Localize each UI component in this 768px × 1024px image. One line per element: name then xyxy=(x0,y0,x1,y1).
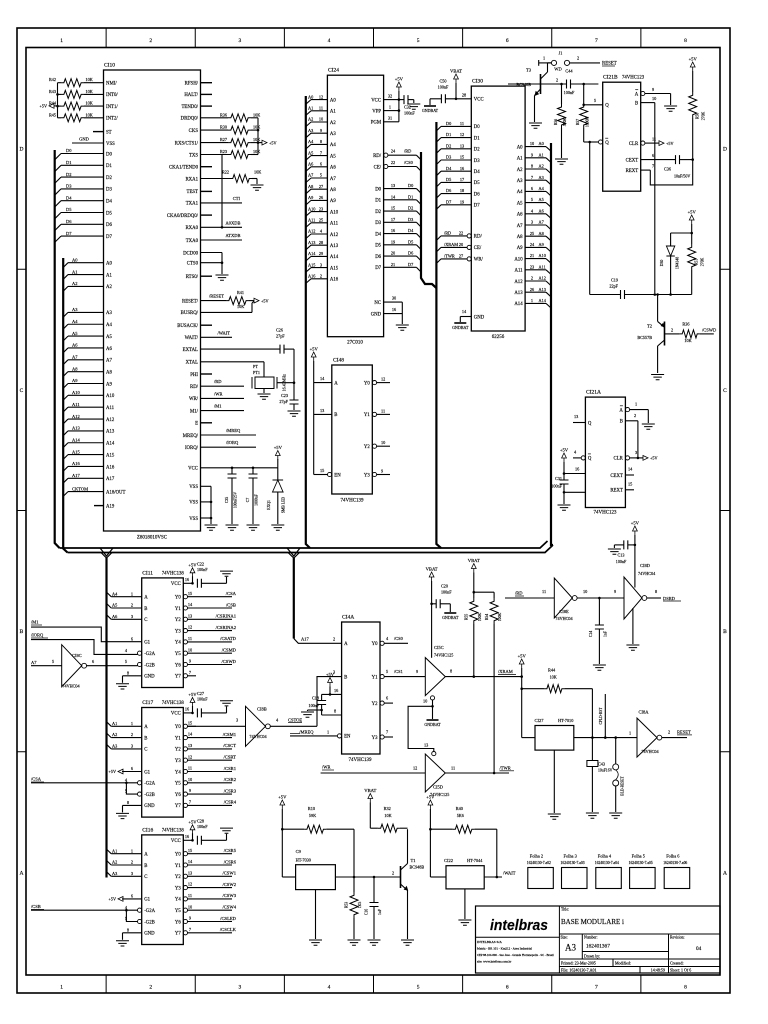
IC CI21B 74VHC123 body xyxy=(603,82,641,191)
svg-text:1: 1 xyxy=(327,729,329,734)
svg-text:HT-7010: HT-7010 xyxy=(558,718,573,723)
svg-text:D2: D2 xyxy=(408,206,413,211)
svg-text:4: 4 xyxy=(328,985,331,991)
net /WR from CPU xyxy=(201,397,245,399)
svg-text:/CSW2: /CSW2 xyxy=(222,882,236,887)
svg-text:A: A xyxy=(20,870,24,876)
IC CI11 74VHC138 body xyxy=(142,578,184,688)
svg-text:16240130-7.a06: 16240130-7.a06 xyxy=(663,861,687,865)
svg-text:R50: R50 xyxy=(696,113,700,119)
svg-text:D7: D7 xyxy=(446,199,452,204)
svg-text:A17: A17 xyxy=(72,473,80,478)
resistor R55 100K xyxy=(470,598,478,624)
svg-text:28: 28 xyxy=(462,92,466,97)
CI4A VCC pin 16 xyxy=(328,678,333,687)
svg-text:VBAT: VBAT xyxy=(468,558,480,563)
svg-text:Y7: Y7 xyxy=(175,675,181,680)
svg-text:CI8C: CI8C xyxy=(72,653,82,658)
svg-text:Size:: Size: xyxy=(561,936,568,940)
C9 output wire xyxy=(335,876,400,878)
svg-text:Y5: Y5 xyxy=(175,652,181,657)
svg-text:Y2: Y2 xyxy=(372,702,378,707)
svg-text:Y1: Y1 xyxy=(175,736,181,741)
svg-text:A3: A3 xyxy=(308,128,313,133)
svg-text:A13: A13 xyxy=(72,426,80,431)
svg-text:A13: A13 xyxy=(106,430,115,435)
svg-text:Q: Q xyxy=(588,421,592,426)
EPROM PGM pin 31 xyxy=(384,121,399,123)
svg-text:11: 11 xyxy=(381,408,385,413)
svg-text:R22: R22 xyxy=(222,170,229,175)
svg-text:B: B xyxy=(144,607,147,612)
svg-text:C36: C36 xyxy=(664,167,672,172)
resistor R50 270K xyxy=(690,62,695,71)
CI22 output net /WAIT xyxy=(484,876,502,878)
svg-text:Folha 6: Folha 6 xyxy=(666,854,680,859)
cap C31 100nF xyxy=(563,474,565,481)
+5V above D30 R51 xyxy=(689,215,694,224)
svg-text:11: 11 xyxy=(319,106,323,111)
svg-text:A11: A11 xyxy=(72,402,80,407)
svg-text:A8: A8 xyxy=(308,184,313,189)
svg-text:12: 12 xyxy=(188,882,192,887)
svg-text:D7: D7 xyxy=(66,231,72,236)
svg-text:A3: A3 xyxy=(517,179,523,184)
svg-text:CKTOM: CKTOM xyxy=(72,486,88,491)
svg-text:R57: R57 xyxy=(576,119,580,125)
inverter CI8C 74VHC04 xyxy=(62,645,82,687)
svg-text:C: C xyxy=(20,388,24,394)
svg-text:CKA1/TEND0: CKA1/TEND0 xyxy=(169,166,199,171)
svg-text:22pF: 22pF xyxy=(609,284,618,289)
net /RD from CPU xyxy=(201,385,245,387)
svg-text:+5V: +5V xyxy=(310,347,319,352)
C9 ground leg xyxy=(315,890,317,939)
svg-text:C32: C32 xyxy=(404,105,411,110)
CI11 enables G2A G2B net None xyxy=(138,651,142,655)
svg-text:EXQ1: EXQ1 xyxy=(267,500,271,510)
svg-text:A11: A11 xyxy=(539,264,546,269)
svg-text:/CSWD: /CSWD xyxy=(702,327,717,332)
svg-text:GND: GND xyxy=(144,932,155,937)
svg-text:3: 3 xyxy=(320,262,322,267)
svg-text:1: 1 xyxy=(629,731,631,736)
CI16 enable G1 xyxy=(122,898,142,900)
svg-text:A7: A7 xyxy=(72,355,78,360)
svg-text:2: 2 xyxy=(320,274,322,279)
svg-text:+5V: +5V xyxy=(518,654,527,659)
svg-text:Y5: Y5 xyxy=(175,909,181,914)
svg-text:10K: 10K xyxy=(253,125,260,130)
svg-text:10K: 10K xyxy=(86,77,93,82)
svg-text:Y1: Y1 xyxy=(364,413,370,418)
svg-text:R43: R43 xyxy=(49,89,56,94)
main horizontal bus lower edge xyxy=(68,545,554,553)
svg-text:Q: Q xyxy=(588,457,592,462)
resistor R44 10K xyxy=(522,688,545,690)
svg-text:4: 4 xyxy=(328,38,331,44)
svg-text:A2: A2 xyxy=(72,281,78,286)
svg-text:CKS: CKS xyxy=(189,129,199,134)
inverter CI8E 74VHC04 xyxy=(554,578,572,618)
svg-text:CI21B: CI21B xyxy=(603,75,618,81)
svg-text:B: B xyxy=(635,101,638,106)
svg-text:10K: 10K xyxy=(237,304,244,309)
svg-text:10K: 10K xyxy=(253,112,260,117)
inverter CI8A 74VHC04 xyxy=(637,718,657,757)
svg-text:HT-7044: HT-7044 xyxy=(467,858,483,863)
CI27 output wire xyxy=(574,737,637,739)
svg-text:ATXDB: ATXDB xyxy=(225,233,240,238)
svg-text:TEST: TEST xyxy=(187,190,199,195)
main horizontal bus upper edge xyxy=(60,541,548,548)
svg-text:3: 3 xyxy=(635,450,637,455)
svg-text:8: 8 xyxy=(127,927,129,932)
CI21B pin CEXT with C36 xyxy=(641,159,676,161)
svg-text:B: B xyxy=(620,420,623,425)
svg-text:59K: 59K xyxy=(309,813,316,818)
CPU interrupt input pins xyxy=(84,82,104,84)
svg-text:CEP 88.104-800 - Sao Jose - Gr: CEP 88.104-800 - Sao Jose - Grande Flori… xyxy=(477,953,554,957)
svg-text:2: 2 xyxy=(531,276,533,281)
svg-text:G1: G1 xyxy=(144,898,150,903)
svg-text:A3: A3 xyxy=(565,943,576,953)
svg-text:/RD: /RD xyxy=(404,149,411,154)
svg-text:10K: 10K xyxy=(253,149,260,154)
CI21B pin REXT xyxy=(641,169,651,171)
+5V for R40 xyxy=(428,800,433,809)
pin A18/OUT CKTOM xyxy=(68,491,104,493)
VBAT for CI5C xyxy=(429,572,434,581)
CI5D output net /TWR xyxy=(445,772,509,774)
svg-text:C19: C19 xyxy=(611,278,618,283)
svg-text:12: 12 xyxy=(319,94,323,99)
svg-text:74VHC04: 74VHC04 xyxy=(641,749,659,754)
svg-text:A15: A15 xyxy=(106,453,115,458)
svg-text:A3: A3 xyxy=(106,311,112,316)
svg-text:Y0: Y0 xyxy=(175,853,181,858)
EPROM data bus vertical xyxy=(421,152,436,288)
svg-text:Y3: Y3 xyxy=(364,473,370,478)
CI4A output Y1 /CS1 xyxy=(380,675,384,679)
svg-text:25: 25 xyxy=(319,218,323,223)
svg-text:/CSR6: /CSR6 xyxy=(224,859,237,864)
svg-text:11: 11 xyxy=(188,893,192,898)
svg-text:A: A xyxy=(344,642,348,647)
VBAT for R32 xyxy=(368,794,373,803)
svg-text:D6: D6 xyxy=(375,255,381,260)
CPU data bus pins D0-D7 xyxy=(61,153,104,155)
svg-text:12: 12 xyxy=(460,132,464,137)
ground below jumper xyxy=(609,813,622,818)
ground for C18 xyxy=(308,709,322,711)
svg-text:Y2: Y2 xyxy=(175,748,181,753)
svg-text:12: 12 xyxy=(381,377,385,382)
svg-text:CE/: CE/ xyxy=(374,165,382,170)
svg-text:R51: R51 xyxy=(695,259,699,265)
svg-text:11: 11 xyxy=(188,766,192,771)
svg-text:162401367: 162401367 xyxy=(586,944,610,950)
svg-text:Revision:: Revision: xyxy=(670,936,685,940)
svg-text:Y2: Y2 xyxy=(364,445,370,450)
svg-text:8: 8 xyxy=(684,38,687,44)
svg-text:A8: A8 xyxy=(517,235,523,240)
svg-text:D1: D1 xyxy=(408,194,413,199)
svg-text:RXS/CTS1/: RXS/CTS1/ xyxy=(175,141,199,146)
svg-text:11: 11 xyxy=(451,766,455,771)
EPROM VCC VPP PGM tie xyxy=(398,100,400,122)
svg-text:9: 9 xyxy=(531,152,533,157)
svg-text:CI17: CI17 xyxy=(142,700,153,706)
svg-text:DSRD: DSRD xyxy=(663,596,676,601)
svg-text:+5V: +5V xyxy=(666,141,673,146)
svg-text:D0: D0 xyxy=(106,152,112,157)
svg-text:D2: D2 xyxy=(375,210,381,215)
svg-text:/WAIT: /WAIT xyxy=(218,330,231,335)
svg-text:C16: C16 xyxy=(365,909,369,915)
svg-text:A6: A6 xyxy=(308,162,314,167)
CI4A output Y3 xyxy=(380,735,384,739)
R57 to CI21B -Q xyxy=(584,141,599,143)
svg-text:A: A xyxy=(635,92,639,97)
svg-text:A: A xyxy=(619,408,623,413)
EPROM NC pin 30 xyxy=(384,301,403,303)
+5V arrow EPROM xyxy=(397,82,402,91)
regulator C9 HT-7030 xyxy=(296,865,336,890)
svg-text:20: 20 xyxy=(391,251,395,256)
svg-text:A1: A1 xyxy=(112,848,117,853)
svg-text:+5V: +5V xyxy=(188,562,197,567)
svg-text:10: 10 xyxy=(381,440,385,445)
EPROM data pins D0-D7 xyxy=(384,188,417,190)
svg-text:R41: R41 xyxy=(237,290,244,295)
svg-text:D3: D3 xyxy=(474,159,480,164)
svg-text:27pF: 27pF xyxy=(279,399,288,404)
svg-text:PGM: PGM xyxy=(371,121,382,126)
cap C23 27pF xyxy=(290,400,299,404)
GNDBAT for CI5C enable xyxy=(427,719,439,721)
svg-text:D5: D5 xyxy=(106,211,112,216)
svg-text:/CSR5: /CSR5 xyxy=(224,848,237,853)
svg-text:A14: A14 xyxy=(72,437,80,442)
svg-text:A10: A10 xyxy=(539,253,546,258)
svg-text:C35: C35 xyxy=(225,497,229,503)
svg-text:15: 15 xyxy=(188,848,192,853)
svg-text:C26: C26 xyxy=(276,328,283,333)
svg-text:CI5D: CI5D xyxy=(433,785,444,790)
svg-text:A14: A14 xyxy=(539,298,547,303)
svg-text:A0: A0 xyxy=(106,262,112,267)
svg-text:A7: A7 xyxy=(308,173,314,178)
resistor R51 270K xyxy=(691,233,693,244)
svg-text:J1: J1 xyxy=(559,51,563,56)
title block outer xyxy=(476,906,721,973)
crystal right leg xyxy=(277,382,294,384)
svg-text:100nF: 100nF xyxy=(438,84,449,89)
XTAL wire xyxy=(201,361,265,363)
svg-text:R53: R53 xyxy=(345,902,349,908)
svg-text:2: 2 xyxy=(634,413,636,418)
svg-text:10K: 10K xyxy=(384,813,391,818)
svg-text:Y0: Y0 xyxy=(175,596,181,601)
svg-text:13: 13 xyxy=(391,183,395,188)
svg-text:A3: A3 xyxy=(112,871,117,876)
svg-text:EN: EN xyxy=(344,735,351,740)
CI8D output net DSRD xyxy=(647,597,661,599)
svg-text:/CSMD: /CSMD xyxy=(222,648,237,653)
svg-text:A2: A2 xyxy=(330,121,336,126)
svg-text:WR/: WR/ xyxy=(474,258,484,263)
svg-text:A17: A17 xyxy=(106,477,115,482)
svg-text:6: 6 xyxy=(506,38,509,44)
svg-text:5: 5 xyxy=(594,98,596,103)
svg-text:22: 22 xyxy=(459,231,463,236)
svg-text:/WR: /WR xyxy=(214,391,223,396)
svg-text:A9: A9 xyxy=(106,382,112,387)
svg-text:74VHC04: 74VHC04 xyxy=(638,571,656,576)
ground below crystal xyxy=(263,389,265,394)
EPROM ground xyxy=(401,302,403,324)
svg-text:9: 9 xyxy=(416,669,418,674)
CI48 pin EN xyxy=(328,472,332,476)
svg-text:INT2/: INT2/ xyxy=(106,117,118,122)
RAM data bus vertical xyxy=(436,122,441,548)
svg-text:RFSH/: RFSH/ xyxy=(185,82,199,87)
svg-text:7: 7 xyxy=(595,985,598,991)
svg-text:04: 04 xyxy=(696,946,702,952)
svg-text:VCC: VCC xyxy=(474,98,484,103)
svg-text:1: 1 xyxy=(131,591,133,596)
svg-text:74VHC125: 74VHC125 xyxy=(434,653,453,658)
svg-text:D3: D3 xyxy=(446,155,451,160)
resistor R32 10K xyxy=(378,824,400,832)
svg-text:EXTAL: EXTAL xyxy=(183,348,198,353)
svg-text:Folha 2: Folha 2 xyxy=(530,854,543,859)
svg-text:CI21A: CI21A xyxy=(586,390,601,396)
svg-text:+5V: +5V xyxy=(109,769,116,774)
svg-text:/CS1: /CS1 xyxy=(394,669,403,674)
svg-text:2: 2 xyxy=(392,870,394,875)
svg-text:VCC: VCC xyxy=(171,712,181,717)
R10 drop to C9 output xyxy=(353,829,355,877)
svg-text:/CSW4: /CSW4 xyxy=(222,905,236,910)
GNDBAT for RAM xyxy=(454,322,466,324)
svg-text:-G2B: -G2B xyxy=(144,920,155,925)
svg-text:25: 25 xyxy=(530,231,534,236)
svg-text:1uF: 1uF xyxy=(378,909,382,915)
svg-text:9: 9 xyxy=(189,659,191,664)
svg-text:CI8D: CI8D xyxy=(640,563,651,568)
svg-text:27C010: 27C010 xyxy=(347,341,363,346)
svg-text:Folha 4: Folha 4 xyxy=(598,854,612,859)
svg-text:RD/: RD/ xyxy=(373,154,382,159)
svg-text:9: 9 xyxy=(189,916,191,921)
cap C13 100nF xyxy=(614,544,623,546)
pull-up resistor network R36 R30 R27 R23 xyxy=(201,117,229,119)
svg-text:/XRAM: /XRAM xyxy=(444,242,458,247)
svg-text:A4: A4 xyxy=(517,190,523,195)
svg-text:D: D xyxy=(723,147,727,153)
svg-text:A10: A10 xyxy=(330,210,339,215)
IC CI48 74VHC139 body xyxy=(332,365,373,494)
svg-text:B: B xyxy=(723,629,727,635)
EPROM GND pin 16 xyxy=(384,313,403,315)
svg-text:CKA0/DRDQ0/: CKA0/DRDQ0/ xyxy=(167,214,199,219)
ground below C23 xyxy=(288,411,301,416)
svg-text:Y1: Y1 xyxy=(175,607,181,612)
svg-text:C28: C28 xyxy=(197,818,204,823)
svg-text:/TWR: /TWR xyxy=(444,254,455,259)
ground for C13 xyxy=(613,545,615,548)
svg-text:GND: GND xyxy=(79,137,89,142)
svg-text:A16: A16 xyxy=(72,461,80,466)
svg-text:5K6: 5K6 xyxy=(457,813,464,818)
IC CI10 Z8018010VSC body xyxy=(104,70,201,531)
svg-text:100nF: 100nF xyxy=(197,697,208,702)
svg-text:GNDBAT: GNDBAT xyxy=(452,325,469,330)
svg-text:D4: D4 xyxy=(66,195,72,200)
svg-text:/IORQ: /IORQ xyxy=(31,633,44,638)
svg-text:INT1/: INT1/ xyxy=(106,105,118,110)
svg-text:100nF: 100nF xyxy=(404,111,415,116)
svg-text:A14: A14 xyxy=(330,255,339,260)
svg-text:XTAL: XTAL xyxy=(186,361,198,366)
EPROM address bus vertical xyxy=(306,96,310,548)
svg-text:D5: D5 xyxy=(66,207,72,212)
svg-text:-G2B: -G2B xyxy=(144,663,155,668)
svg-text:BUSRQ/: BUSRQ/ xyxy=(181,311,199,316)
svg-text:8: 8 xyxy=(655,589,657,594)
ground for CI21A -A xyxy=(642,424,655,429)
svg-text:Y0: Y0 xyxy=(175,725,181,730)
svg-text:1: 1 xyxy=(635,402,637,407)
svg-text:R27: R27 xyxy=(220,137,227,142)
svg-text:CI27: CI27 xyxy=(535,718,545,723)
svg-text:R40: R40 xyxy=(456,806,463,811)
svg-text:31: 31 xyxy=(388,116,392,121)
svg-text:A6: A6 xyxy=(112,614,118,619)
crystal PT1 16.43MHz xyxy=(255,377,274,389)
svg-text:A: A xyxy=(334,381,338,386)
svg-text:CI30: CI30 xyxy=(472,79,483,85)
svg-text:D2: D2 xyxy=(106,176,112,181)
svg-text:A5: A5 xyxy=(539,197,544,202)
IC CI30 62256 body xyxy=(471,86,525,331)
IC CI16 74VHC138 body xyxy=(142,835,184,945)
pin ST xyxy=(93,131,104,133)
svg-text:ST: ST xyxy=(106,130,112,135)
svg-text:D2: D2 xyxy=(66,172,72,177)
svg-text:C50: C50 xyxy=(440,78,447,83)
svg-text:CI16: CI16 xyxy=(142,827,153,833)
svg-text:3: 3 xyxy=(131,744,133,749)
svg-text:C: C xyxy=(144,618,147,623)
CI21A pin -A 1 xyxy=(625,408,629,412)
svg-text:A8: A8 xyxy=(330,188,336,193)
net /MREQ from CPU xyxy=(201,434,257,436)
svg-text:CTS0: CTS0 xyxy=(187,262,199,267)
svg-text:Folha 3: Folha 3 xyxy=(564,854,578,859)
svg-text:D7: D7 xyxy=(474,204,480,209)
svg-text:13: 13 xyxy=(188,613,192,618)
ground for C32 xyxy=(407,104,420,109)
svg-text:BASE MODULARE i: BASE MODULARE i xyxy=(561,918,624,926)
svg-text:A13: A13 xyxy=(330,244,339,249)
CI21A pin -Q 4 xyxy=(581,456,585,460)
CI22 input wire xyxy=(430,876,446,878)
CI21B pin B xyxy=(641,102,655,104)
svg-text:A3: A3 xyxy=(330,132,336,137)
